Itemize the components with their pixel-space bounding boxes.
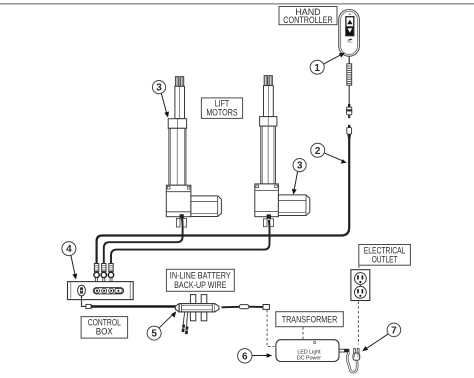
svg-text:OUTLET: OUTLET [372, 255, 398, 265]
svg-text:CONTROLLER: CONTROLLER [283, 15, 333, 25]
callout 7 [362, 323, 401, 351]
callout 3 right [292, 159, 306, 195]
top border [0, 3, 474, 5]
label LIFT MOTORS [201, 98, 242, 119]
power cord loop [347, 352, 357, 372]
svg-text:BACK-UP WIRE: BACK-UP WIRE [174, 280, 226, 290]
plug P2 [101, 264, 106, 282]
callout 4 [62, 242, 77, 280]
callout 2 [311, 143, 347, 163]
plug P1 [94, 264, 99, 282]
hand controller U-HC [339, 10, 360, 57]
control box connector strip [93, 288, 123, 294]
svg-text:6: 6 [242, 351, 248, 362]
wire M2 to control box plug 3 [111, 220, 270, 264]
svg-text:5: 5 [151, 329, 157, 340]
svg-text:3: 3 [156, 83, 162, 94]
hand controller buttons [346, 13, 354, 35]
svg-text:TRANSFORMER: TRANSFORMER [282, 315, 338, 326]
wire M1 to control box plug 2 [104, 218, 183, 264]
inline battery backup module [175, 295, 219, 335]
cord connector B [347, 125, 352, 140]
electrical outlet [351, 270, 370, 301]
svg-text:DC Power: DC Power [297, 356, 321, 362]
M2 collar [260, 117, 277, 127]
callout 1 [310, 53, 345, 75]
lift motor M2 (right) [255, 76, 310, 227]
control box plugs (3) [94, 264, 114, 282]
wire control box to inline battery [82, 296, 176, 309]
M2 motor housing [278, 195, 309, 216]
M1 outer tube [169, 128, 186, 185]
transformer [276, 340, 339, 362]
label HAND CONTROLLER [279, 7, 337, 26]
power plug [353, 349, 360, 361]
callout 3 left [152, 81, 169, 118]
dashed outlet to plug [357, 302, 359, 345]
svg-text:LED Light: LED Light [297, 349, 321, 355]
svg-text:BOX: BOX [96, 327, 113, 337]
M2 clevis [263, 214, 273, 226]
svg-text:7: 7 [391, 326, 397, 337]
M2 ridged cap [264, 76, 272, 86]
cord connector A [347, 104, 352, 118]
callout 5 [147, 311, 176, 340]
dashed line connector to transformer [267, 310, 274, 347]
hand controller logo [347, 39, 352, 43]
battery module dangling wires [183, 312, 185, 325]
callout 6 [238, 349, 273, 363]
wire hand controller to control box plug 1 [97, 140, 350, 265]
control box battery socket oval [78, 285, 86, 296]
M1 motor housing [191, 196, 222, 217]
wire inline battery to transformer connectors [222, 305, 270, 310]
control box [68, 282, 134, 300]
lift motor M1 (left) [166, 77, 221, 228]
M1 clevis [176, 214, 186, 227]
label CONTROL BOX [81, 317, 128, 339]
M2 outer tube [261, 126, 276, 184]
M2 piston rod [264, 86, 274, 117]
svg-text:2: 2 [315, 146, 321, 157]
svg-text:3: 3 [297, 161, 303, 172]
dashed line label to transformer [302, 327, 304, 339]
dashed label to outlet [358, 266, 360, 270]
M1 collar [168, 119, 186, 129]
M1 piston rod [175, 86, 185, 118]
label IN-LINE BATTERY BACK-UP WIRE [166, 269, 234, 291]
svg-text:MOTORS: MOTORS [206, 107, 237, 117]
M2 gear body [255, 184, 279, 217]
transformer DC jack [339, 349, 349, 353]
M1 ridged cap [175, 77, 184, 87]
svg-text:1: 1 [314, 63, 320, 74]
label TRANSFORMER [276, 312, 344, 327]
svg-text:4: 4 [66, 244, 72, 255]
plug P3 [108, 264, 113, 282]
coiled cord of hand controller [347, 56, 352, 104]
M1 gear body [166, 185, 191, 217]
label ELECTRICAL OUTLET [359, 245, 411, 266]
